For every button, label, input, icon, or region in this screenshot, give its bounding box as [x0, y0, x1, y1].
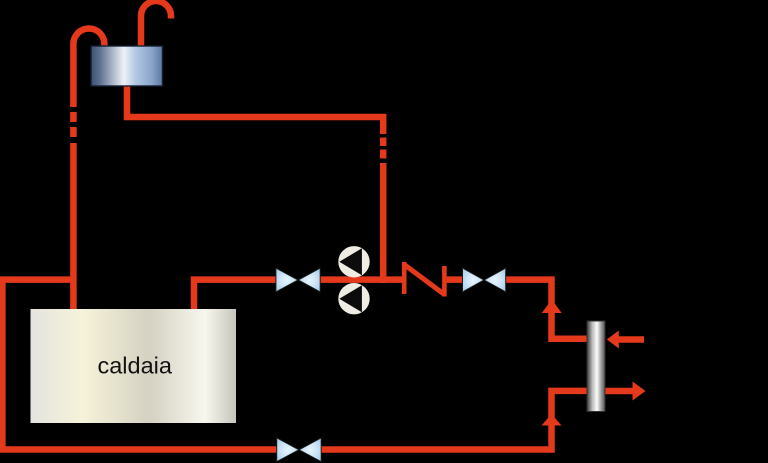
boiler caldaia	[31, 309, 237, 423]
pump P1 lower impeller	[338, 283, 369, 314]
wire: bottom return pipe left of valve	[0, 446, 277, 453]
arrow: outlet arrowhead pointing right	[633, 382, 646, 401]
wire: tank outlet drop lower section to tee	[380, 163, 387, 283]
wire: secondary inlet with left arrow into exchanger	[618, 336, 644, 343]
wire: pipe between check valve and valve V2	[446, 276, 463, 283]
valve V2 (gate valve after check valve)	[463, 268, 506, 292]
wire: secondary outlet shaft from exchanger	[605, 388, 633, 395]
check valve (non-return) N symbol	[404, 262, 444, 297]
wire: bottom return pipe right of valve, riser to exchanger lower port	[321, 391, 588, 450]
wire: left branch from tee to left edge	[0, 276, 73, 283]
pump P1 upper impeller	[338, 246, 369, 277]
arrow: inlet arrowhead pointing left	[607, 331, 619, 349]
wire: left downcomer	[0, 280, 6, 450]
heat exchanger	[587, 321, 605, 412]
wire: tank outlet down, across and down to pump line	[127, 84, 383, 134]
arrow: flow up on lower exchanger riser	[542, 414, 562, 426]
arrow: flow up on upper exchanger riser	[542, 300, 562, 314]
wire: pipe from valve V2 to upper exchanger riser and port	[506, 280, 589, 339]
valve V3 (gate valve on bottom return)	[277, 438, 322, 462]
expansion tank	[91, 46, 163, 86]
wire: safety riser lower section into boiler	[70, 143, 77, 309]
valve V1 (gate valve on pump line)	[276, 268, 320, 292]
pipe break dashes on tank outlet drop	[380, 138, 387, 159]
pipe break dashes on safety riser	[70, 112, 77, 137]
wire: boiler supply stub up and across to valve V1	[194, 280, 276, 309]
wire: pump line between valve V1 and check valve	[320, 276, 402, 283]
wire: safety riser from boiler top with curve into tank	[73, 28, 104, 107]
wire: vent hook pipe on tank top	[141, 1, 171, 47]
svg-text:caldaia: caldaia	[97, 353, 172, 379]
